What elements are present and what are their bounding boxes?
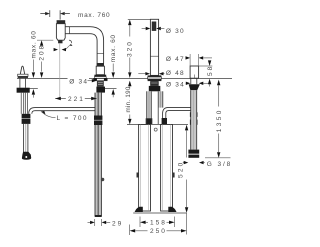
svg-text:158: 158 <box>150 220 167 227</box>
svg-text:Ø 34: Ø 34 <box>166 82 185 89</box>
left fixture below deck tube <box>19 78 21 88</box>
columns below shelf <box>135 125 177 213</box>
svg-text:max. 60: max. 60 <box>110 34 117 62</box>
left column body <box>97 63 104 66</box>
dim 29 <box>88 221 93 223</box>
svg-text:Ø 34: Ø 34 <box>69 78 88 85</box>
svg-text:Ø 47: Ø 47 <box>166 56 185 63</box>
spray head left view <box>57 20 66 24</box>
svg-text:208: 208 <box>39 44 46 61</box>
wire deck bottom segment left <box>24 88 38 90</box>
svg-text:221: 221 <box>68 96 85 103</box>
svg-text:Ø 48: Ø 48 <box>166 70 185 77</box>
svg-text:58: 58 <box>207 65 214 76</box>
dim 58 <box>199 65 213 67</box>
head centerline <box>59 44 61 99</box>
G3/8 nut <box>188 150 199 154</box>
left main hose below <box>94 93 104 217</box>
dim Ø48 <box>138 73 145 75</box>
dim Ø34 left view <box>68 77 90 85</box>
dim 1350 <box>217 80 220 86</box>
dim 320 <box>128 19 150 21</box>
right fixture box <box>190 66 199 78</box>
node left view spray head dimension max. 760 <box>40 10 70 19</box>
dim 250 <box>129 225 131 236</box>
dim 158 <box>139 217 141 228</box>
svg-text:29: 29 <box>112 220 123 227</box>
right column <box>150 19 158 75</box>
dim Ø30 <box>142 28 146 30</box>
svg-text:G 3/8: G 3/8 <box>207 161 232 168</box>
dim min. 190 <box>128 81 131 87</box>
L=700 hose horizontal run <box>29 108 95 114</box>
pinch arrows at head outlet <box>54 48 58 51</box>
wire deck top line <box>17 78 232 80</box>
label L = 700 <box>41 111 46 114</box>
svg-text:320: 320 <box>127 40 134 57</box>
shelf line <box>127 124 188 126</box>
baseline <box>133 212 186 214</box>
two supply tubes <box>146 91 163 124</box>
dim 520 <box>185 125 188 131</box>
right fixture below deck <box>190 78 192 84</box>
left hanging hose <box>20 93 22 114</box>
wire deck bottom segment mid <box>104 88 117 90</box>
left column shank below deck <box>97 81 104 87</box>
swivel glyph <box>69 40 72 43</box>
svg-text:min. 190: min. 190 <box>125 86 132 112</box>
swivel leader <box>66 44 71 49</box>
label G 3/8 <box>183 162 184 164</box>
svg-text:520: 520 <box>178 161 185 178</box>
pull-out hose right view <box>163 107 191 118</box>
left fixture dome above deck <box>20 66 24 74</box>
svg-text:250: 250 <box>150 228 167 235</box>
right escutcheon <box>148 75 162 77</box>
svg-text:L = 700: L = 700 <box>57 115 88 122</box>
right shank below deck <box>150 81 159 86</box>
svg-text:1350: 1350 <box>216 108 223 132</box>
svg-text:Ø 30: Ø 30 <box>166 28 185 35</box>
dim 221 <box>55 98 96 100</box>
svg-text:max. 60: max. 60 <box>30 30 37 58</box>
G3/8 tube <box>191 90 197 149</box>
spout left view <box>65 27 103 64</box>
dim 208 (line B) <box>37 39 53 41</box>
svg-text:max. 760: max. 760 <box>78 12 110 19</box>
